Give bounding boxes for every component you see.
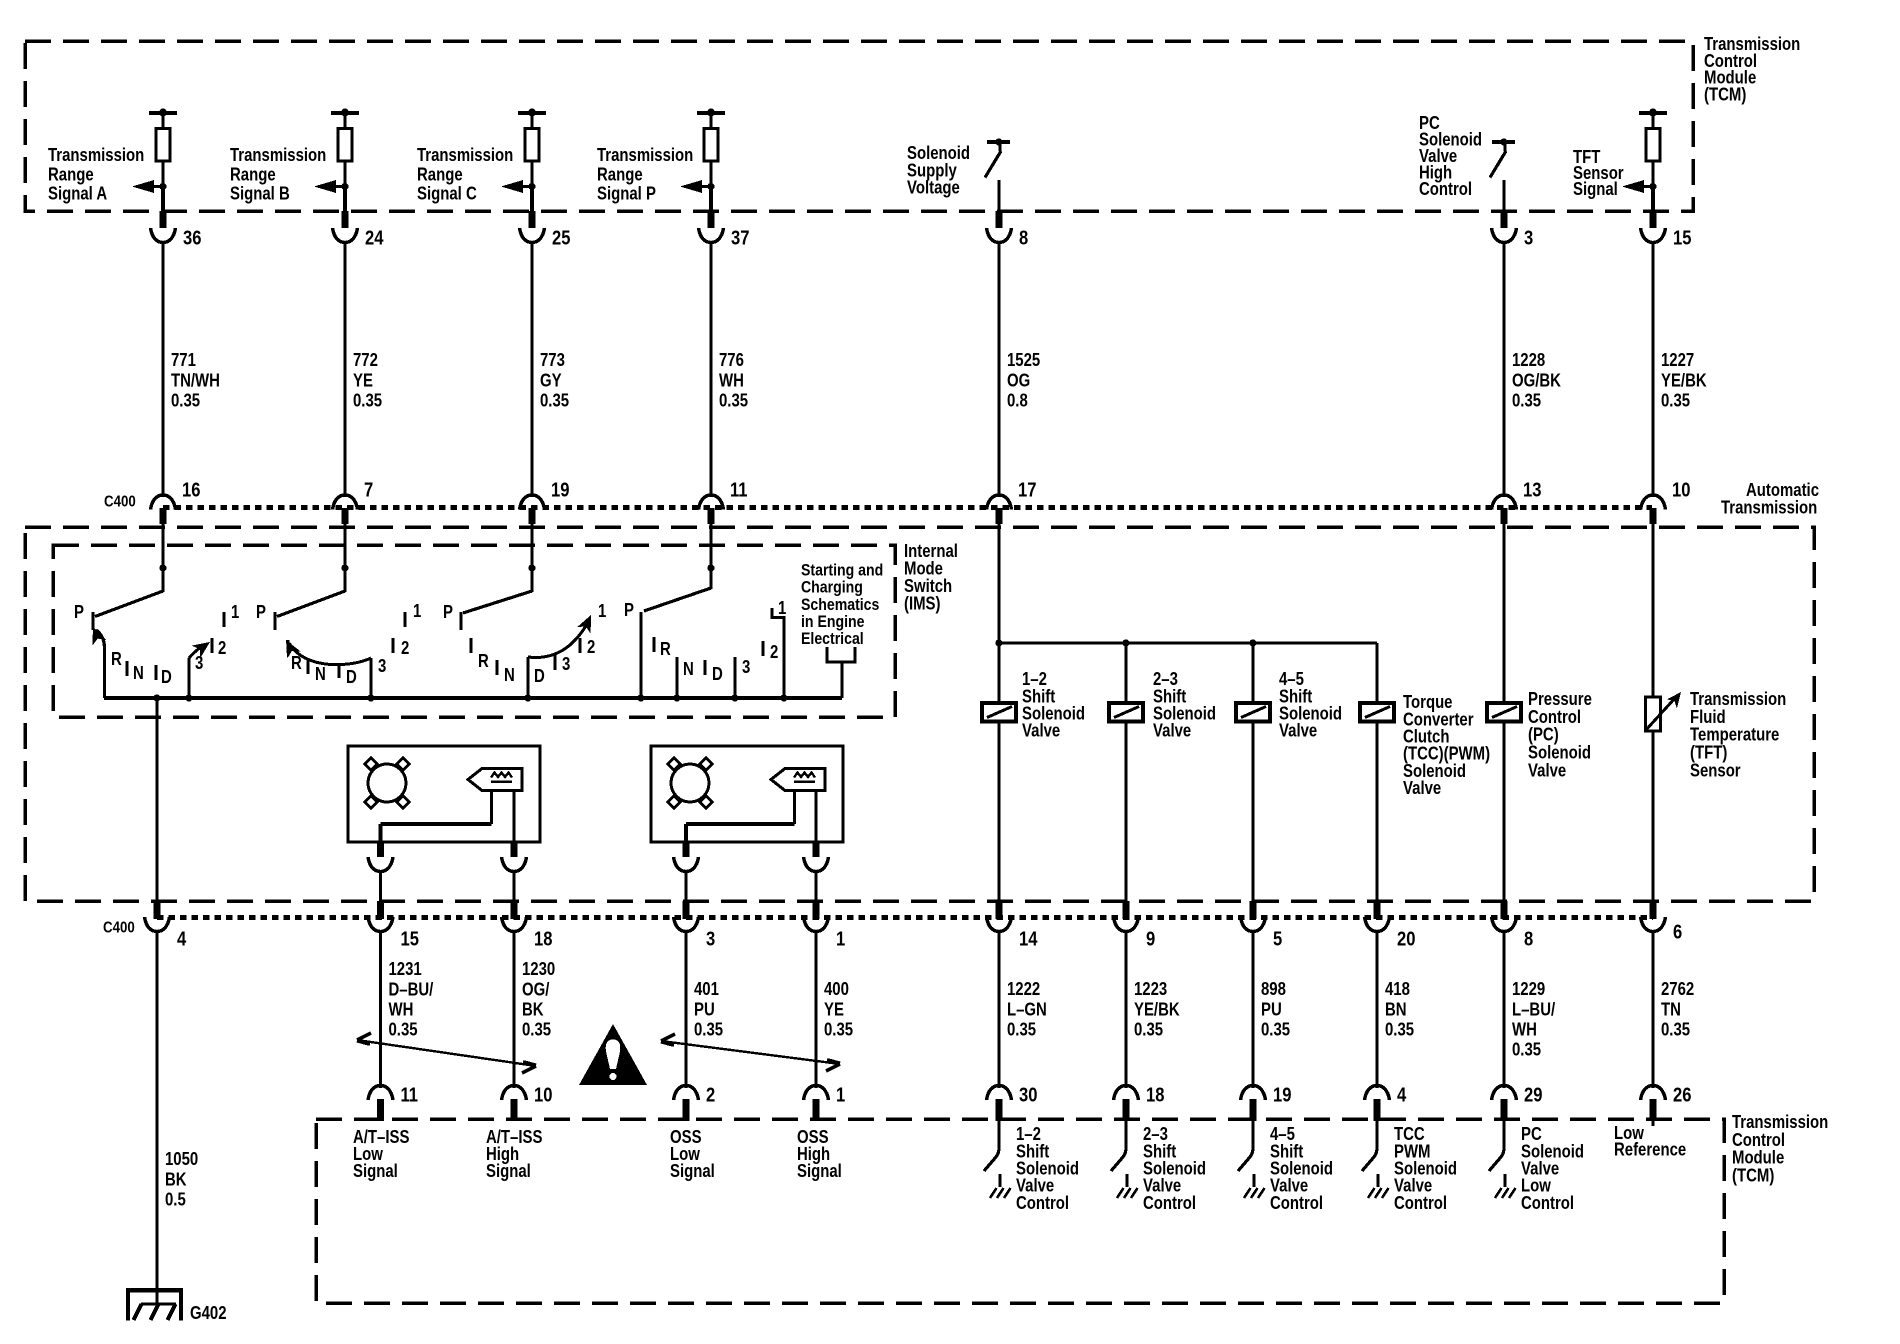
svg-text:TN: TN <box>1661 999 1681 1020</box>
svg-text:20: 20 <box>1397 927 1415 950</box>
signal arrow (Transmission Range Signal P) <box>680 180 715 193</box>
svg-text:401: 401 <box>694 979 719 1000</box>
pin number 11 <box>730 478 748 501</box>
svg-text:3: 3 <box>742 657 750 678</box>
svg-text:0.35: 0.35 <box>1007 1019 1036 1040</box>
connector pin 8 (TCM) <box>987 228 1012 243</box>
IMS switch B: wiper blade from R to contact 3 <box>279 636 371 664</box>
low-side driver switch with ground (TCC PWM) <box>1362 1121 1389 1198</box>
connector TCM pin 30 (bottom) <box>987 1086 1012 1122</box>
wire from C400 pin 9 to TCM pin 18 <box>1124 931 1127 1088</box>
label: 2–3 Shift Solenoid Valve <box>1153 669 1216 741</box>
wire from A/T-ISS high to C400 pin 18 <box>512 871 515 902</box>
svg-text:4: 4 <box>177 927 187 950</box>
pin number 10 <box>534 1083 552 1106</box>
svg-text:Range: Range <box>48 164 94 185</box>
svg-text:400: 400 <box>824 979 849 1000</box>
wire: TCM pin 37 stub <box>709 186 713 228</box>
svg-text:Signal P: Signal P <box>597 183 656 204</box>
4-5 shift solenoid valve (coil symbol) <box>1236 703 1270 722</box>
label: Low Reference <box>1614 1123 1686 1160</box>
svg-text:Control: Control <box>1143 1193 1196 1214</box>
IMS switch C: link to P contact <box>463 591 532 613</box>
svg-text:Signal: Signal <box>670 1161 715 1182</box>
connector C400 pin 15 (bottom) <box>368 901 393 932</box>
wire from C400 pin 14 to TCM pin 30 <box>997 931 1000 1088</box>
pin number 13 <box>1523 478 1541 501</box>
svg-text:Signal C: Signal C <box>417 183 477 204</box>
connector C400 pin 8 (bottom) <box>1492 901 1517 932</box>
label: Solenoid Supply Voltage <box>907 143 970 198</box>
svg-text:0.35: 0.35 <box>353 390 382 411</box>
junction: switch A contact 3 <box>185 694 192 701</box>
IMS switch B: contact 1 <box>405 601 421 627</box>
svg-text:0.35: 0.35 <box>719 390 748 411</box>
pin number 7 <box>364 478 373 501</box>
wire from C400 pin 8 to TCM pin 29 <box>1502 931 1505 1088</box>
svg-text:Control: Control <box>1521 1193 1574 1214</box>
solenoid supply branch wire <box>999 641 1377 644</box>
TCM module box (bottom) <box>316 1119 1724 1303</box>
wire label 1223 YE/BK 0.35 <box>1134 979 1180 1040</box>
svg-text:C400: C400 <box>103 920 135 937</box>
IMS switch C: R N contact ticks <box>471 638 515 685</box>
signal arrow (TFT Sensor Signal) <box>1622 180 1657 193</box>
pin number 8 <box>1524 927 1533 950</box>
wire label 1050 BK 0.5 <box>165 1149 198 1210</box>
svg-text:Control: Control <box>1419 179 1472 200</box>
svg-text:3: 3 <box>706 927 715 950</box>
IMS switch P: contact 3 line to bus <box>731 657 750 702</box>
svg-text:772: 772 <box>353 350 378 371</box>
svg-text:WH: WH <box>719 370 744 391</box>
svg-text:24: 24 <box>365 226 384 249</box>
twisted-pair indicator (OSS pair) <box>661 1034 840 1071</box>
IMS switch C: contact D line to bus <box>524 657 544 702</box>
label: TFT Sensor Signal <box>1573 147 1624 200</box>
low-side driver switch with ground (1–2 Shift) <box>984 1121 1011 1198</box>
wire from C400 pin 15 to TCM pin 11 <box>379 931 382 1088</box>
signal arrow (Transmission Range Signal B) <box>314 180 349 193</box>
svg-text:30: 30 <box>1019 1083 1037 1106</box>
IMS switch A: contact 2 <box>212 638 226 659</box>
svg-text:6: 6 <box>1673 920 1682 943</box>
svg-text:3: 3 <box>378 656 386 677</box>
wire: TCM pin 25 stub <box>530 186 534 228</box>
wire label 1222 L–GN 0.35 <box>1007 979 1047 1040</box>
wire stub TCM pin 26 <box>1651 1121 1654 1126</box>
wire from C400 pin 3 to TCM pin 2 <box>684 931 687 1088</box>
wire to PC solenoid valve <box>1502 524 1505 703</box>
pin number 9 <box>1146 927 1155 950</box>
TCM module box (top) <box>25 41 1693 211</box>
pin number 37 <box>731 226 749 249</box>
svg-text:Valve: Valve <box>1279 720 1317 741</box>
pull-up resistor (Transmission Range Signal P) <box>697 109 725 188</box>
IMS switch C: wiper blade from D to contact 1 <box>528 612 598 658</box>
svg-text:BN: BN <box>1385 999 1407 1020</box>
wire label 1231 D–BU/ WH 0.35 <box>389 959 434 1040</box>
svg-text:Control: Control <box>1016 1193 1069 1214</box>
svg-text:N: N <box>504 665 515 686</box>
connector TCM pin 4 (bottom) <box>1365 1086 1390 1122</box>
branch drop wire to 4-5 shift solenoid <box>1251 643 1254 703</box>
IMS switch P: contact 2 tick <box>763 641 778 662</box>
label C400 (top) <box>104 494 136 511</box>
svg-text:1525: 1525 <box>1007 350 1040 371</box>
svg-text:P: P <box>624 600 634 621</box>
connector C400 pin 1 (bottom) <box>804 901 829 932</box>
pin number 6 <box>1673 920 1682 943</box>
label G402 <box>190 1303 227 1324</box>
svg-text:1: 1 <box>778 598 786 619</box>
wire label 898 PU 0.35 <box>1261 979 1290 1040</box>
pull-up resistor (TFT Sensor Signal) in TCM <box>1639 109 1667 188</box>
IMS switch P: link to P contact <box>644 588 711 611</box>
pin number 3 <box>1524 226 1533 249</box>
IMS switch A: wiper blade to bus <box>86 624 106 698</box>
label: TCC PWM Solenoid Valve Control <box>1394 1124 1457 1213</box>
svg-text:Charging: Charging <box>801 578 863 596</box>
svg-text:776: 776 <box>719 350 744 371</box>
TFT sensor (thermistor symbol) <box>1645 688 1687 731</box>
svg-text:Signal: Signal <box>486 1161 531 1182</box>
connector C400 pin 16 (top) <box>151 495 176 524</box>
wire from A/T-ISS low to C400 pin 15 <box>379 871 382 902</box>
pin number 16 <box>182 478 200 501</box>
svg-text:2: 2 <box>587 637 595 658</box>
svg-text:0.35: 0.35 <box>1512 390 1541 411</box>
svg-text:Valve: Valve <box>1528 760 1566 781</box>
svg-text:0.35: 0.35 <box>171 390 200 411</box>
svg-text:773: 773 <box>540 350 565 371</box>
connector C400 pin 10 (top) <box>1641 495 1666 524</box>
svg-text:16: 16 <box>182 478 200 501</box>
label: Internal Mode Switch (IMS) <box>904 541 958 614</box>
1-2 shift solenoid valve (coil symbol) <box>982 703 1016 722</box>
svg-text:2762: 2762 <box>1661 979 1694 1000</box>
connector TCM pin 11 (bottom) <box>368 1086 393 1122</box>
svg-text:YE/BK: YE/BK <box>1134 999 1180 1020</box>
PC solenoid valve (coil symbol) <box>1487 703 1521 722</box>
label: Transmission Control Module (TCM) bottom-right <box>1732 1112 1828 1186</box>
svg-text:D: D <box>161 667 172 688</box>
wire label 401 PU 0.35 <box>694 979 723 1040</box>
svg-text:PU: PU <box>694 999 715 1020</box>
junction at 4-5 shift solenoid <box>1249 639 1256 646</box>
wire 1227 YE/BK to C400 pin 10 <box>1651 242 1654 497</box>
pull-up resistor (Transmission Range Signal B) <box>331 109 359 188</box>
connector pin 25 (TCM) <box>520 228 545 243</box>
svg-text:11: 11 <box>730 478 748 501</box>
svg-text:13: 13 <box>1523 478 1541 501</box>
svg-text:N: N <box>683 659 694 680</box>
connector C400 pin 14 (bottom) <box>987 901 1012 932</box>
svg-text:Signal B: Signal B <box>230 183 290 204</box>
svg-text:2: 2 <box>706 1083 715 1106</box>
label: Starting and Charging Schematics in Engine Electrical <box>801 561 883 648</box>
wire label 772 YE 0.35 <box>353 350 382 411</box>
wire: TCM pin 8 stub <box>996 211 1003 228</box>
svg-text:0.35: 0.35 <box>1385 1019 1414 1040</box>
A/T-ISS pin stubs and connectors <box>368 843 527 872</box>
wire into IMS <box>161 524 164 570</box>
TCC PWM solenoid valve (coil symbol) <box>1360 703 1394 722</box>
svg-text:Transmission: Transmission <box>597 145 693 166</box>
connector C400 pin 7 (top) <box>333 495 358 524</box>
svg-text:YE/BK: YE/BK <box>1661 370 1707 391</box>
low-side driver switch with ground (4–5 Shift) <box>1238 1121 1265 1198</box>
IMS switch A: link to P contact <box>95 591 163 617</box>
wire from OSS high to C400 pin 1 <box>814 871 817 902</box>
wire label 1228 OG/BK 0.35 <box>1512 350 1561 411</box>
svg-text:Valve: Valve <box>1153 720 1191 741</box>
wire below 4-5 shift solenoid valve <box>1251 721 1254 902</box>
IMS switch B: contact 2 <box>393 638 409 659</box>
svg-text:PU: PU <box>1261 999 1282 1020</box>
svg-text:YE: YE <box>353 370 373 391</box>
svg-text:Range: Range <box>417 164 463 185</box>
svg-text:10: 10 <box>1672 478 1690 501</box>
IMS switch B: feed wire and junction <box>341 564 348 592</box>
pin number 36 <box>183 226 201 249</box>
wire: solenoid supply into transmission <box>997 524 1000 703</box>
branch drop wire to TCC solenoid <box>1375 643 1378 703</box>
label: 1–2 Shift Solenoid Valve <box>1022 669 1085 741</box>
svg-text:YE: YE <box>824 999 844 1020</box>
label: PC Solenoid Valve Low Control <box>1521 1124 1584 1213</box>
IMS switch C: contact 1 label <box>598 601 606 622</box>
svg-text:1229: 1229 <box>1512 979 1545 1000</box>
pin number 19 <box>1273 1083 1291 1106</box>
svg-text:Transmission: Transmission <box>417 145 513 166</box>
svg-text:(TCM): (TCM) <box>1704 84 1746 105</box>
2-3 shift solenoid valve (coil symbol) <box>1109 703 1143 722</box>
pin number 24 <box>365 226 384 249</box>
svg-text:0.35: 0.35 <box>1261 1019 1290 1040</box>
svg-text:L–GN: L–GN <box>1007 999 1047 1020</box>
wire label 400 YE 0.35 <box>824 979 853 1040</box>
svg-text:Range: Range <box>230 164 276 185</box>
wire: TCM pin 36 stub <box>161 186 165 228</box>
wire from OSS low to C400 pin 3 <box>684 871 687 902</box>
connector TCM pin 26 (bottom) <box>1641 1086 1666 1122</box>
IMS switch C: contact 2 <box>580 637 595 658</box>
label: 2–3 Shift Solenoid Valve Control <box>1143 1124 1206 1213</box>
svg-text:D: D <box>712 664 723 685</box>
svg-text:0.8: 0.8 <box>1007 390 1028 411</box>
IMS switch A: R N D contact ticks <box>111 649 172 688</box>
label: Pressure Control (PC) Solenoid Valve <box>1528 689 1592 781</box>
svg-text:0.35: 0.35 <box>1661 1019 1690 1040</box>
pull-up resistor (Transmission Range Signal C) <box>518 109 546 188</box>
svg-text:D: D <box>346 667 357 688</box>
svg-text:in Engine: in Engine <box>801 613 865 631</box>
driver switch (PC Solenoid Valve High Control) in TCM <box>1490 138 1515 211</box>
svg-text:Transmission: Transmission <box>48 145 144 166</box>
wire 77x to C400 pin 16 <box>161 242 164 497</box>
pin number 30 <box>1019 1083 1037 1106</box>
connector TCM pin 1 (bottom) <box>804 1086 829 1122</box>
pin number 18 <box>1146 1083 1164 1106</box>
wire label 773 GY 0.35 <box>540 350 569 411</box>
twisted-pair indicator (A/T-ISS pair) <box>357 1033 536 1073</box>
label: Transmission Range Signal B <box>230 145 326 204</box>
label: Torque Converter Clutch (TCC)(PWM) Solenoid Valve <box>1403 692 1490 799</box>
svg-text:1227: 1227 <box>1661 350 1694 371</box>
svg-text:P: P <box>74 602 84 623</box>
svg-text:Range: Range <box>597 164 643 185</box>
svg-text:898: 898 <box>1261 979 1286 1000</box>
svg-text:0.35: 0.35 <box>1661 390 1690 411</box>
speed sensor A/T-ISS (input speed sensor) box <box>348 746 540 846</box>
warning note triangle <box>579 1024 647 1085</box>
label: Transmission Range Signal C <box>417 145 513 204</box>
pin number 10 <box>1672 478 1690 501</box>
IMS switch A: contact 3 line to bus <box>189 653 203 698</box>
connector pin 36 (TCM) <box>151 228 176 243</box>
connector pin 3 (TCM) <box>1492 228 1517 243</box>
IMS switch P: feed wire and junction <box>707 564 714 589</box>
svg-text:771: 771 <box>171 350 196 371</box>
svg-text:WH: WH <box>1512 1019 1537 1040</box>
connector pin 37 (TCM) <box>699 228 724 243</box>
signal arrow (Transmission Range Signal C) <box>501 180 536 193</box>
connector TCM pin 18 (bottom) <box>1114 1086 1139 1122</box>
svg-text:C400: C400 <box>104 494 136 511</box>
Internal Mode Switch (IMS) box <box>53 545 895 717</box>
label: Transmission Fluid Temperature (TFT) Sensor <box>1690 689 1786 781</box>
IMS switch A: feed wire and junction <box>159 564 166 592</box>
pin number 18 <box>534 927 552 950</box>
svg-text:0.35: 0.35 <box>694 1019 723 1040</box>
svg-text:14: 14 <box>1019 927 1038 950</box>
svg-text:29: 29 <box>1524 1083 1542 1106</box>
svg-text:1228: 1228 <box>1512 350 1545 371</box>
svg-text:0.35: 0.35 <box>522 1019 551 1040</box>
IMS switch B: R N D contact ticks <box>291 653 357 688</box>
IMS switch P: N contact line to bus <box>673 657 693 702</box>
wire 1228 OG/BK to C400 pin 13 <box>1502 242 1505 497</box>
svg-text:R: R <box>660 639 671 660</box>
svg-text:P: P <box>256 602 266 623</box>
svg-text:8: 8 <box>1019 226 1028 249</box>
svg-text:7: 7 <box>364 478 373 501</box>
svg-text:L–BU/: L–BU/ <box>1512 999 1556 1020</box>
IMS switch A: P contact <box>74 602 93 630</box>
label: Transmission Control Module (TCM) top-right <box>1704 34 1800 105</box>
connector TCM pin 29 (bottom) <box>1492 1086 1517 1122</box>
svg-text:8: 8 <box>1524 927 1533 950</box>
wire below PC solenoid valve <box>1502 721 1505 902</box>
wire label 1227 YE/BK 0.35 <box>1661 350 1707 411</box>
svg-text:11: 11 <box>401 1083 419 1106</box>
svg-text:26: 26 <box>1673 1083 1691 1106</box>
svg-text:0.35: 0.35 <box>1134 1019 1163 1040</box>
junction at 2-3 shift solenoid <box>1122 639 1129 646</box>
svg-text:1222: 1222 <box>1007 979 1040 1000</box>
IMS switch B: contact 3 line to bus <box>367 656 386 702</box>
IMS switch P: R contact tick <box>654 637 671 659</box>
svg-text:WH: WH <box>389 999 414 1020</box>
label: 4–5 Shift Solenoid Valve <box>1279 669 1342 741</box>
label: 1–2 Shift Solenoid Valve Control <box>1016 1124 1079 1213</box>
svg-text:2: 2 <box>401 638 409 659</box>
connector C400 pin 11 (top) <box>699 495 724 524</box>
wire from C400 pin 20 to TCM pin 4 <box>1375 931 1378 1088</box>
low-side driver switch with ground (2–3 Shift) <box>1111 1121 1138 1198</box>
svg-text:Signal: Signal <box>797 1161 842 1182</box>
IMS switch A: wiper toward contact 2 <box>189 636 214 658</box>
connector C400 pin 19 (top) <box>520 495 545 524</box>
svg-text:Transmission: Transmission <box>1721 497 1817 518</box>
connector C400 pin 17 (top) <box>987 495 1012 524</box>
svg-text:37: 37 <box>731 226 749 249</box>
svg-text:10: 10 <box>534 1083 552 1106</box>
svg-text:OG/: OG/ <box>522 979 550 1000</box>
wire from C400 pin 18 to TCM pin 10 <box>512 931 515 1088</box>
pin number 14 <box>1019 927 1038 950</box>
label: Automatic Transmission <box>1721 480 1819 518</box>
svg-text:G402: G402 <box>190 1303 227 1324</box>
svg-text:N: N <box>315 664 326 685</box>
wire below 1-2 shift solenoid valve <box>997 721 1000 902</box>
connector C400 pin 4 (bottom) <box>145 901 170 932</box>
svg-text:5: 5 <box>1273 927 1282 950</box>
wire 77x to C400 pin 7 <box>343 242 346 497</box>
connector line C400 (top, dotted) <box>163 505 1652 510</box>
svg-text:0.5: 0.5 <box>165 1189 186 1210</box>
wire: TCM pin 24 stub <box>343 186 347 228</box>
IMS switch B: link to P contact <box>277 591 345 617</box>
connector C400 pin 9 (bottom) <box>1114 901 1139 932</box>
svg-text:1223: 1223 <box>1134 979 1167 1000</box>
svg-text:1: 1 <box>836 1083 845 1106</box>
connector pin 15 (TCM) <box>1641 228 1666 243</box>
wire: TCM pin 3 stub <box>1501 211 1508 228</box>
pin number 5 <box>1273 927 1282 950</box>
wire label 1525 OG 0.8 <box>1007 350 1040 411</box>
label: OSS Low Signal <box>670 1127 715 1182</box>
IMS switch C: P contact <box>443 602 461 630</box>
wire 1525 OG to C400 pin 17 <box>997 242 1000 497</box>
wire from C400 pin 1 to TCM pin 1 <box>814 931 817 1088</box>
pin number 15 <box>1673 226 1691 249</box>
wire 1050 BK below IMS bus <box>155 698 158 902</box>
IMS switch P: P contact line to bus <box>624 600 645 702</box>
svg-text:19: 19 <box>1273 1083 1291 1106</box>
svg-text:36: 36 <box>183 226 201 249</box>
svg-text:0.35: 0.35 <box>540 390 569 411</box>
svg-text:2: 2 <box>770 642 778 663</box>
wire 77x to C400 pin 19 <box>530 242 533 497</box>
svg-text:BK: BK <box>522 999 544 1020</box>
IMS switch B: P contact <box>256 602 275 630</box>
svg-text:1231: 1231 <box>389 959 422 980</box>
wire label 771 TN/WH 0.35 <box>171 350 220 411</box>
connector TCM pin 10 (bottom) <box>502 1086 527 1122</box>
pin number 25 <box>552 226 570 249</box>
junction: supply branch at 1-2 shift solenoid <box>995 639 1002 646</box>
svg-text:R: R <box>111 649 122 670</box>
svg-text:Starting and: Starting and <box>801 561 883 579</box>
low-side driver switch with ground (PC Solenoid) <box>1489 1121 1516 1198</box>
svg-text:N: N <box>133 663 144 684</box>
svg-text:18: 18 <box>534 927 552 950</box>
svg-text:3: 3 <box>195 653 203 674</box>
pin number 20 <box>1397 927 1415 950</box>
svg-text:(TCM): (TCM) <box>1732 1165 1774 1186</box>
